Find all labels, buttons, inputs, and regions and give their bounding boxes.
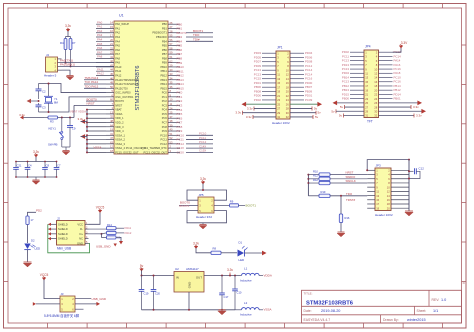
svg-text:18: 18 xyxy=(286,85,289,89)
svg-text:C19: C19 xyxy=(144,292,149,296)
svg-text:PA2: PA2 xyxy=(115,31,120,35)
resistor R15 xyxy=(102,234,124,245)
svg-text:Mini_USB: Mini_USB xyxy=(57,247,71,251)
svg-text:Inductive: Inductive xyxy=(240,313,252,317)
svg-text:REV:: REV: xyxy=(432,298,440,302)
svg-text:PA10: PA10 xyxy=(115,65,122,69)
crystal Y1 8M xyxy=(44,83,59,114)
power flag 3.3v (U2 out) xyxy=(227,268,233,276)
svg-text:PB9: PB9 xyxy=(162,61,167,65)
svg-text:Header 3X2: Header 3X2 xyxy=(196,215,212,219)
svg-text:SHIELD: SHIELD xyxy=(58,232,68,236)
svg-text:3.3v: 3.3v xyxy=(247,106,253,110)
svg-text:C4: C4 xyxy=(28,163,32,167)
net label USB_GND (switch) xyxy=(75,297,107,301)
svg-text:PA11: PA11 xyxy=(115,69,122,73)
wire OSC_OUT xyxy=(39,97,107,112)
svg-text:VDD_1: VDD_1 xyxy=(115,116,124,120)
svg-text:OSC_OUT/PD1: OSC_OUT/PD1 xyxy=(115,95,134,99)
svg-text:PA14/JTCK/SWCLK: PA14/JTCK/SWCLK xyxy=(115,82,139,86)
inductor L1 xyxy=(240,267,272,283)
svg-text:EASYEDA V4.4.7: EASYEDA V4.4.7 xyxy=(304,318,331,322)
svg-text:STM32F103RBT6: STM32F103RBT6 xyxy=(135,65,141,110)
svg-text:SHIELD: SHIELD xyxy=(58,222,68,226)
inductor L2 xyxy=(235,301,272,317)
net label PD2 xyxy=(28,208,43,216)
svg-text:PA12: PA12 xyxy=(115,73,122,77)
svg-text:PB4: PB4 xyxy=(162,39,167,43)
wire switch pin3 xyxy=(33,302,60,306)
push button KEY1 xyxy=(48,118,64,148)
svg-text:Header 5: Header 5 xyxy=(44,74,57,78)
regulator U2 AMS1117 xyxy=(174,267,204,292)
svg-text:PA1: PA1 xyxy=(115,26,120,30)
resistor R19 xyxy=(308,190,367,202)
wire JTAG top loop xyxy=(366,159,410,172)
svg-text:TITLE:: TITLE: xyxy=(304,292,313,296)
svg-text:D+: D+ xyxy=(79,232,83,236)
svg-text:VCC5: VCC5 xyxy=(40,273,49,277)
svg-text:KEY1: KEY1 xyxy=(49,127,57,131)
svg-text:3.3v: 3.3v xyxy=(78,117,84,121)
svg-text:GND: GND xyxy=(188,282,192,288)
svg-text:3.3v: 3.3v xyxy=(416,114,422,118)
resistor R17 xyxy=(26,216,34,243)
svg-text:NC: NC xyxy=(79,237,83,241)
connector J2 Mini_USB xyxy=(48,216,89,250)
svg-text:J4: J4 xyxy=(46,53,49,57)
svg-text:PB3/JDO: PB3/JDO xyxy=(156,35,167,39)
svg-text:PB00: PB00 xyxy=(342,97,349,101)
svg-text:5v: 5v xyxy=(339,114,343,118)
capacitor C10 xyxy=(232,276,242,310)
power flag 5v (U2 in) xyxy=(139,264,174,276)
svg-text:PC11: PC11 xyxy=(161,138,168,142)
svg-text:U1: U1 xyxy=(119,14,124,18)
svg-text:PD02: PD02 xyxy=(254,98,262,102)
svg-text:17: 17 xyxy=(365,84,368,88)
svg-text:PB6: PB6 xyxy=(162,48,167,52)
svg-text:PC09: PC09 xyxy=(305,98,313,102)
wire NRST to reset circuit xyxy=(74,102,106,118)
svg-text:L1: L1 xyxy=(244,267,248,271)
svg-text:C20: C20 xyxy=(155,292,160,296)
svg-text:PB7: PB7 xyxy=(162,52,167,56)
svg-text:PD2: PD2 xyxy=(36,208,42,212)
svg-text:5v: 5v xyxy=(340,105,344,109)
svg-text:PB12: PB12 xyxy=(160,73,167,77)
svg-text:D2: D2 xyxy=(31,238,35,242)
svg-text:OSC_IN/PD0: OSC_IN/PD0 xyxy=(115,91,131,95)
svg-text:NRST: NRST xyxy=(115,103,122,107)
svg-text:Drawn By:: Drawn By: xyxy=(383,318,399,322)
svg-text:31: 31 xyxy=(365,114,368,118)
extended wires PC10-PC15 xyxy=(186,132,213,153)
svg-text:18: 18 xyxy=(387,202,390,206)
svg-text:JP4: JP4 xyxy=(365,44,371,48)
svg-text:PB14: PB14 xyxy=(160,82,167,86)
3.3V VDD power bus xyxy=(70,109,106,132)
svg-text:VDDA: VDDA xyxy=(115,112,122,116)
svg-text:J3: J3 xyxy=(61,292,64,296)
svg-text:PC13_OSC32_OUT: PC13_OSC32_OUT xyxy=(143,150,167,154)
svg-text:VSSA_2: VSSA_2 xyxy=(115,138,125,142)
ground (U2) xyxy=(218,310,226,315)
svg-text:PA5: PA5 xyxy=(115,44,120,48)
svg-text:USB_GND: USB_GND xyxy=(92,297,107,301)
svg-text:PA6: PA6 xyxy=(115,48,120,52)
svg-text:winter2015: winter2015 xyxy=(407,318,426,322)
svg-text:L2: L2 xyxy=(244,301,248,305)
svg-text:VSSA_1: VSSA_1 xyxy=(115,133,125,137)
svg-text:C2: C2 xyxy=(42,90,46,94)
svg-text:3.3v: 3.3v xyxy=(193,242,199,246)
svg-text:BOOT0: BOOT0 xyxy=(179,204,189,208)
svg-text:23: 23 xyxy=(365,97,368,101)
power flag 3.3V (reset) xyxy=(19,113,44,120)
connector JP5 BOOT header 3X2 xyxy=(196,193,214,219)
svg-text:C3: C3 xyxy=(42,106,46,110)
svg-text:Header 10X2: Header 10X2 xyxy=(375,213,393,217)
svg-text:R4: R4 xyxy=(60,41,64,45)
resistor R18 xyxy=(211,247,237,255)
svg-text:PC3: PC3 xyxy=(162,103,168,107)
svg-text:2019-08-20: 2019-08-20 xyxy=(321,309,340,313)
svg-text:28: 28 xyxy=(374,105,377,109)
svg-text:TDO PA15: TDO PA15 xyxy=(85,85,99,89)
svg-text:PB10: PB10 xyxy=(160,65,167,69)
svg-text:C10: C10 xyxy=(237,291,242,295)
svg-text:R16: R16 xyxy=(345,216,350,220)
svg-text:10: 10 xyxy=(374,67,377,71)
svg-text:R10: R10 xyxy=(313,169,318,173)
svg-text:SW-PB: SW-PB xyxy=(48,142,57,146)
svg-text:3.3v: 3.3v xyxy=(227,268,233,272)
svg-text:3.3v: 3.3v xyxy=(246,115,252,119)
svg-text:25: 25 xyxy=(277,102,280,106)
switch J3 self-lock xyxy=(60,292,75,312)
svg-text:STM32F103RBT6: STM32F103RBT6 xyxy=(306,300,354,306)
ground (D2) xyxy=(23,262,31,267)
svg-text:15: 15 xyxy=(277,81,280,85)
svg-text:JP1: JP1 xyxy=(277,45,283,49)
wire 3.3v/5v row13 JP1 xyxy=(242,102,323,107)
wire gnd rail xyxy=(142,309,236,311)
svg-text:23: 23 xyxy=(277,98,280,102)
svg-text:PB15: PB15 xyxy=(160,86,167,90)
svg-text:USB_GND: USB_GND xyxy=(96,245,111,249)
svg-text:SHIELD: SHIELD xyxy=(58,227,68,231)
svg-text:12: 12 xyxy=(374,72,377,76)
svg-text:PB8: PB8 xyxy=(162,56,167,60)
power flag 3.3V (TFT) xyxy=(393,41,409,52)
ground (reset) xyxy=(62,147,70,155)
svg-text:17: 17 xyxy=(31,218,34,222)
resistor R9 to BOOT1 xyxy=(214,199,256,207)
power flag 3.3v / 5v row14 JP1 xyxy=(247,106,318,110)
svg-text:PC4: PC4 xyxy=(162,108,168,112)
svg-text:20: 20 xyxy=(286,90,289,94)
svg-text:VDD_2: VDD_2 xyxy=(115,120,124,124)
svg-text:5v: 5v xyxy=(331,109,335,113)
svg-text:BOOT0: BOOT0 xyxy=(115,99,124,103)
ground (BOOT header) xyxy=(199,223,207,229)
svg-text:17: 17 xyxy=(277,85,280,89)
svg-text:C7: C7 xyxy=(57,163,61,167)
svg-text:VDD_3: VDD_3 xyxy=(115,125,124,129)
resistor R3 xyxy=(44,116,74,124)
svg-text:20: 20 xyxy=(387,206,390,210)
svg-text:12: 12 xyxy=(286,73,289,77)
svg-text:AMS1117: AMS1117 xyxy=(186,267,199,271)
svg-text:16: 16 xyxy=(374,80,377,84)
svg-text:IN: IN xyxy=(176,276,179,280)
svg-text:VDD_4: VDD_4 xyxy=(115,129,124,133)
ground (R16) xyxy=(337,232,345,237)
svg-text:C9: C9 xyxy=(72,127,76,131)
LED D2 xyxy=(24,238,40,262)
resistor R4 xyxy=(60,37,67,64)
power flag 3.3v row15 JP1 xyxy=(235,111,321,115)
svg-text:R12: R12 xyxy=(313,178,318,182)
svg-text:13: 13 xyxy=(277,77,280,81)
svg-text:R19: R19 xyxy=(321,190,326,194)
svg-text:PA15/JTDI: PA15/JTDI xyxy=(115,86,128,90)
svg-text:30: 30 xyxy=(374,109,377,113)
wire switch pin4 xyxy=(75,302,100,306)
svg-text:SHIELD: SHIELD xyxy=(58,237,68,241)
svg-text:PA0_WKUP: PA0_WKUP xyxy=(115,22,129,26)
svg-text:PC1: PC1 xyxy=(162,95,168,99)
svg-text:GND: GND xyxy=(77,241,83,245)
resistor R13 xyxy=(89,223,132,230)
capacitor C2 xyxy=(36,84,47,100)
wire USB_GND (green) xyxy=(48,224,117,253)
svg-text:3.3V: 3.3V xyxy=(401,41,408,45)
svg-text:R3: R3 xyxy=(50,120,54,124)
svg-text:14: 14 xyxy=(374,76,377,80)
decoupling capacitors C21 C4 C8 C7 xyxy=(13,150,61,185)
svg-text:Header 16X2: Header 16X2 xyxy=(272,121,290,125)
svg-text:19: 19 xyxy=(365,88,368,92)
svg-text:PA4: PA4 xyxy=(115,39,120,43)
svg-text:PA7: PA7 xyxy=(115,52,120,56)
svg-text:3.3v: 3.3v xyxy=(200,177,206,181)
svg-text:Sheet:: Sheet: xyxy=(417,309,427,313)
capacitor C17 xyxy=(219,276,229,310)
resistor R7 xyxy=(69,37,76,68)
svg-text:16: 16 xyxy=(387,198,390,202)
svg-text:26: 26 xyxy=(286,102,289,106)
svg-text:NRST: NRST xyxy=(87,102,95,106)
svg-text:VBAT: VBAT xyxy=(115,108,122,112)
JTAG net labels TMS TCK TDO xyxy=(84,76,106,89)
svg-text:TFT: TFT xyxy=(367,120,373,124)
svg-text:1.0: 1.0 xyxy=(441,298,446,302)
svg-text:VBAT VDDA: VBAT VDDA xyxy=(70,110,86,114)
svg-text:PA11: PA11 xyxy=(125,226,132,230)
svg-text:VDDA: VDDA xyxy=(264,273,272,277)
svg-text:24: 24 xyxy=(286,98,289,102)
wire row13 JP4 xyxy=(333,100,423,105)
svg-text:PC15_OSC32_OUT: PC15_OSC32_OUT xyxy=(115,150,139,154)
svg-text:PB13: PB13 xyxy=(160,78,167,82)
VSSA ground bus xyxy=(81,134,107,153)
svg-text:VCC: VCC xyxy=(77,222,83,226)
capacitor C20 xyxy=(151,275,161,310)
svg-text:JP5: JP5 xyxy=(199,193,204,197)
net label BOOT0 on MCU xyxy=(86,97,106,101)
connector JP4 TFT header xyxy=(342,44,401,123)
svg-text:27: 27 xyxy=(365,105,368,109)
wire BOOT bottom loop xyxy=(187,211,227,223)
svg-text:21: 21 xyxy=(277,94,280,98)
ground (crystal) xyxy=(27,99,40,103)
svg-text:R11: R11 xyxy=(313,174,318,178)
svg-text:SWCLK: SWCLK xyxy=(346,179,356,183)
svg-text:C12: C12 xyxy=(419,166,425,170)
capacitor C3 xyxy=(36,103,47,112)
svg-text:VSSA: VSSA xyxy=(94,146,102,150)
wire JTAG right ground bus xyxy=(408,160,410,211)
svg-text:PA12: PA12 xyxy=(125,231,132,235)
capacitor C19 xyxy=(139,275,149,310)
svg-text:D1: D1 xyxy=(239,240,243,244)
power flag 5v row15 JP4 xyxy=(331,109,426,114)
svg-text:OUT: OUT xyxy=(196,276,202,280)
svg-text:PC12: PC12 xyxy=(160,142,167,146)
connector J4 Header 5 (UART) xyxy=(44,53,62,78)
svg-text:5.8*5.8MM 自锁开关 6脚: 5.8*5.8MM 自锁开关 6脚 xyxy=(44,313,79,318)
svg-text:PC7: PC7 xyxy=(162,120,168,124)
label switch type xyxy=(44,313,79,318)
power flag 5v / 3.3v row14 JP4 xyxy=(340,105,419,109)
svg-text:29: 29 xyxy=(365,109,368,113)
svg-text:3.3v: 3.3v xyxy=(235,111,241,115)
svg-text:PB0: PB0 xyxy=(162,22,167,26)
svg-text:13: 13 xyxy=(365,76,368,80)
svg-text:JP3: JP3 xyxy=(376,163,382,167)
svg-text:3.3v: 3.3v xyxy=(413,105,419,109)
svg-text:19: 19 xyxy=(277,90,280,94)
connector JP3 Header 10X2 (JTAG) xyxy=(367,163,409,217)
power flag VCC5 (switch) xyxy=(40,273,60,299)
svg-text:R14: R14 xyxy=(107,223,112,227)
power flag 3.3v / 5v row16 JP1 xyxy=(246,115,319,119)
svg-text:BOOT1: BOOT1 xyxy=(246,203,257,207)
svg-text:TDI#: TDI# xyxy=(193,37,200,41)
svg-text:R8: R8 xyxy=(213,247,217,251)
svg-text:PC6: PC6 xyxy=(162,116,168,120)
svg-text:PA9: PA9 xyxy=(115,61,120,65)
svg-text:PC9: PC9 xyxy=(162,129,168,133)
svg-text:TRST#: TRST# xyxy=(346,198,356,202)
svg-text:31: 31 xyxy=(277,115,280,119)
svg-text:D-: D- xyxy=(80,227,83,231)
svg-text:PC0: PC0 xyxy=(162,91,168,95)
svg-text:17: 17 xyxy=(376,202,379,206)
svg-text:18: 18 xyxy=(374,84,377,88)
svg-text:29: 29 xyxy=(277,111,280,115)
resistor R16 xyxy=(339,195,350,232)
svg-text:PA3: PA3 xyxy=(115,35,120,39)
power flag 3.3v (D1) xyxy=(193,242,211,253)
ground (JTAG) xyxy=(405,211,413,216)
svg-text:21: 21 xyxy=(365,93,368,97)
svg-text:Inductive: Inductive xyxy=(240,278,252,282)
svg-text:LED: LED xyxy=(35,246,41,250)
svg-text:20: 20 xyxy=(374,88,377,92)
svg-text:32: 32 xyxy=(374,114,377,118)
svg-text:LED: LED xyxy=(239,258,245,262)
svg-text:8M: 8M xyxy=(54,100,59,104)
svg-text:22: 22 xyxy=(286,94,289,98)
svg-text:10: 10 xyxy=(387,185,390,189)
svg-text:27: 27 xyxy=(277,107,280,111)
svg-text:1/1: 1/1 xyxy=(433,309,438,313)
wire U2 out xyxy=(204,275,240,277)
svg-text:TDO: TDO xyxy=(346,192,353,196)
title block xyxy=(302,290,462,323)
svg-text:VSSA_3: VSSA_3 xyxy=(115,142,125,146)
wire U2 gnd xyxy=(188,292,190,310)
svg-text:U2: U2 xyxy=(175,267,179,271)
LED D1 xyxy=(238,240,267,262)
svg-text:15: 15 xyxy=(365,80,368,84)
svg-text:PC8: PC8 xyxy=(162,125,168,129)
svg-text:PB01: PB01 xyxy=(394,97,401,101)
svg-text:25: 25 xyxy=(365,101,368,105)
power flag 5v / 3.3v row16 JP4 xyxy=(339,114,422,118)
svg-text:PB2/BOOT1: PB2/BOOT1 xyxy=(152,31,167,35)
capacitor C12 xyxy=(408,166,424,179)
svg-text:PA8: PA8 xyxy=(115,56,120,60)
svg-text:15: 15 xyxy=(376,198,379,202)
resistor R14 xyxy=(89,231,132,235)
svg-text:PC2: PC2 xyxy=(162,99,168,103)
connector JP1 Header 16X2 xyxy=(254,45,313,125)
svg-text:J2: J2 xyxy=(57,216,60,220)
svg-text:24: 24 xyxy=(374,97,377,101)
svg-text:PA8: PA8 xyxy=(97,55,103,59)
wire PA9 TX1 xyxy=(60,59,114,63)
svg-text:3.3v: 3.3v xyxy=(33,150,39,154)
power flag 3.3V (UART pull-ups) xyxy=(65,24,71,37)
svg-text:VCC5: VCC5 xyxy=(96,206,105,210)
svg-text:12: 12 xyxy=(387,190,390,194)
svg-text:3.3v: 3.3v xyxy=(65,24,71,28)
svg-text:R7: R7 xyxy=(72,41,76,45)
svg-text:PA13/JTMS/SWDIO: PA13/JTMS/SWDIO xyxy=(115,78,138,82)
svg-text:26: 26 xyxy=(374,101,377,105)
svg-text:22: 22 xyxy=(374,93,377,97)
svg-text:R9: R9 xyxy=(230,199,234,203)
svg-text:VSSA: VSSA xyxy=(264,308,272,312)
svg-text:PA10(RX1): PA10(RX1) xyxy=(60,63,75,67)
wire BOOT top loop xyxy=(187,189,227,200)
svg-text:C8: C8 xyxy=(46,163,50,167)
power flag 3.3V (BOOT) xyxy=(200,177,206,190)
wire OSC_IN xyxy=(39,84,107,93)
svg-text:C17: C17 xyxy=(224,295,229,299)
svg-text:32: 32 xyxy=(286,115,289,119)
svg-text:C15X: C15X xyxy=(177,151,185,155)
wire switch pin6 stub xyxy=(75,308,84,310)
capacitor C9 xyxy=(67,118,76,148)
power flag VCC5 (USB) xyxy=(89,206,105,225)
svg-text:10: 10 xyxy=(286,68,289,72)
svg-text:C15X: C15X xyxy=(199,149,206,153)
